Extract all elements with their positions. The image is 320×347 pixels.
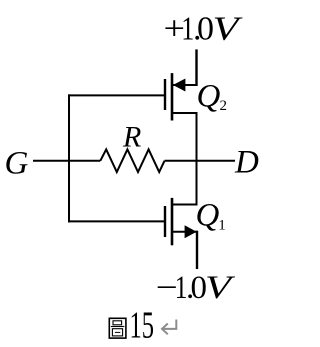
svg-text:R: R	[122, 120, 141, 153]
caption number 15	[130, 304, 155, 346]
svg-text:Q: Q	[197, 78, 221, 114]
supply +1.0V label	[164, 11, 244, 48]
Q2 channel bar	[171, 73, 174, 120]
svg-text:V: V	[205, 270, 236, 306]
wire Q1 drain riser	[196, 160, 198, 206]
svg-text:D: D	[234, 145, 259, 181]
Q2 drain dropper	[196, 112, 198, 162]
supply -1.0V label	[156, 270, 236, 306]
resistor R	[100, 149, 164, 172]
transistor Q2 label	[197, 78, 228, 114]
Q1 channel bar	[171, 198, 174, 245]
wire bottom gate lead to Q1	[68, 220, 165, 222]
wire left rail	[68, 94, 70, 222]
svg-text:Q: Q	[196, 198, 220, 234]
svg-text:15: 15	[130, 304, 155, 346]
node D label	[234, 145, 259, 181]
wire top gate lead to Q2	[68, 94, 165, 96]
svg-text:V: V	[213, 11, 244, 48]
transistor Q2 (PMOS)	[165, 73, 198, 162]
svg-text:0: 0	[197, 11, 214, 48]
Q2 source arrow	[173, 79, 186, 92]
svg-text:1: 1	[218, 218, 226, 234]
Q1 source dropper	[196, 231, 198, 269]
caption figure character 圖 (drawn)	[109, 318, 126, 338]
Q1 source lead	[172, 231, 198, 233]
wire +1.0V supply riser	[195, 49, 197, 86]
Q2 gate bar	[164, 79, 166, 110]
Q1 gate bar	[164, 206, 166, 237]
wire resistor to node D	[165, 160, 236, 162]
Q2 source lead	[172, 84, 198, 86]
wire G lead	[33, 160, 100, 162]
Q2 drain lead	[172, 112, 198, 114]
Q1 drain lead	[172, 204, 198, 206]
transistor Q1 (NMOS)	[165, 198, 198, 269]
svg-text:2: 2	[220, 98, 228, 114]
node G label	[5, 145, 29, 181]
resistor R value label	[122, 120, 141, 153]
transistor Q1 label	[196, 198, 226, 234]
svg-text:G: G	[5, 145, 29, 181]
caption paragraph return mark	[162, 320, 176, 335]
Q1 source arrow	[185, 225, 197, 238]
